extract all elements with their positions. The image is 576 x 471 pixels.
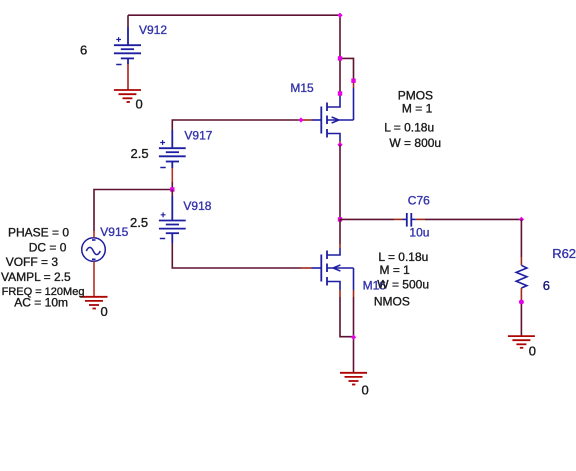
wire output node to C76	[340, 218, 394, 220]
svg-text:6: 6	[543, 278, 550, 293]
wire V912 minus to ground (pin red)	[127, 64, 129, 90]
junction square M15 bulk	[351, 79, 355, 83]
svg-text:PMOS: PMOS	[398, 89, 433, 103]
junction square output node	[338, 217, 342, 221]
battery V918 plus mark	[161, 212, 166, 217]
junction diamond C76/R62	[519, 217, 524, 222]
battery V912 plus mark	[116, 37, 121, 42]
svg-text:VAMPL = 2.5: VAMPL = 2.5	[1, 270, 71, 284]
V915 pins red	[93, 231, 95, 297]
svg-text:L = 0.18u: L = 0.18u	[384, 121, 434, 135]
junction square M15 drain pin	[338, 91, 342, 95]
svg-text:6: 6	[80, 43, 87, 58]
svg-text:W = 800u: W = 800u	[389, 136, 441, 150]
ground 0 at R62	[508, 336, 535, 348]
V915 plus tick	[92, 239, 96, 241]
junction diamond top rail	[337, 13, 342, 18]
svg-text:PHASE = 0: PHASE = 0	[8, 225, 69, 239]
battery V917 plus mark	[160, 140, 165, 145]
resistor R62	[516, 265, 527, 288]
ground 0 at V912	[114, 90, 141, 102]
wire VDD down to M15 area	[340, 15, 354, 93]
wire top rail V912+ to M15	[128, 15, 340, 27]
svg-text:0: 0	[529, 344, 536, 359]
wire output node down to M16 drain	[339, 219, 341, 248]
svg-text:V918: V918	[183, 199, 211, 213]
svg-text:M = 1: M = 1	[380, 263, 411, 277]
junction diamond at gate M15	[298, 117, 303, 122]
junction square VDD corner	[338, 56, 342, 60]
svg-text:0: 0	[362, 383, 369, 398]
C76 pin red stubs	[394, 218, 425, 220]
wire node down to R62	[520, 219, 522, 265]
svg-text:W = 500u: W = 500u	[377, 278, 429, 292]
svg-text:2.5: 2.5	[131, 146, 149, 161]
svg-text:V912: V912	[139, 23, 167, 37]
battery V918	[159, 196, 186, 243]
svg-text:L = 0.18u: L = 0.18u	[378, 250, 428, 264]
svg-text:AC = 10m: AC = 10m	[14, 296, 68, 310]
svg-text:C76: C76	[408, 194, 430, 208]
svg-text:0: 0	[136, 97, 143, 112]
svg-text:NMOS: NMOS	[374, 295, 410, 309]
M15 bulk arrow (points right: PMOS)	[332, 117, 339, 123]
svg-text:V917: V917	[184, 129, 212, 143]
svg-text:M15: M15	[290, 81, 314, 95]
ground 0 at V915	[81, 297, 108, 309]
svg-text:V915: V915	[100, 225, 128, 239]
capacitor C76	[407, 213, 412, 227]
wire M15 source to output node	[339, 145, 341, 220]
wire M16 source down and right	[340, 297, 354, 337]
M16 bulk arrow (points left: NMOS)	[333, 265, 340, 271]
source V915	[82, 238, 106, 262]
wire V917 minus to junction	[171, 168, 173, 190]
wire C76 to R62 node	[425, 218, 521, 220]
junction diamond M15 source pin	[337, 142, 342, 147]
transistor M16 NMOS	[321, 251, 327, 286]
battery V912	[114, 27, 141, 64]
svg-text:10u: 10u	[409, 226, 429, 240]
battery V917 minus mark	[160, 167, 165, 169]
svg-text:2.5: 2.5	[130, 215, 148, 230]
transistor M15 PMOS	[321, 103, 327, 138]
svg-text:M = 1: M = 1	[402, 102, 433, 116]
wire V917+ to M15 gate	[172, 120, 301, 130]
wire M16 bulk down to ground	[353, 297, 355, 373]
junction dot below R62	[519, 300, 524, 305]
M16 pin red stubs	[301, 268, 354, 297]
wire V918 minus to M16 gate	[172, 243, 301, 268]
wire junction to V918+	[171, 190, 173, 197]
svg-text:DC = 0: DC = 0	[29, 240, 67, 254]
junction (V917-/V918+/V915)	[170, 187, 174, 191]
svg-text:R62: R62	[552, 246, 576, 261]
battery V918 minus mark	[160, 238, 165, 240]
battery V917	[159, 130, 186, 168]
svg-text:VOFF = 3: VOFF = 3	[6, 255, 59, 269]
M15 pin red stubs	[301, 81, 354, 145]
battery V912 minus mark	[116, 64, 121, 66]
V915 minus tick	[92, 258, 96, 260]
wire R62 to ground	[520, 288, 522, 336]
ground 0 at M16	[340, 373, 367, 385]
svg-text:0: 0	[101, 304, 108, 319]
junction diamond M16 source/bulk	[351, 335, 356, 340]
wire V915 to junction node	[94, 190, 172, 232]
